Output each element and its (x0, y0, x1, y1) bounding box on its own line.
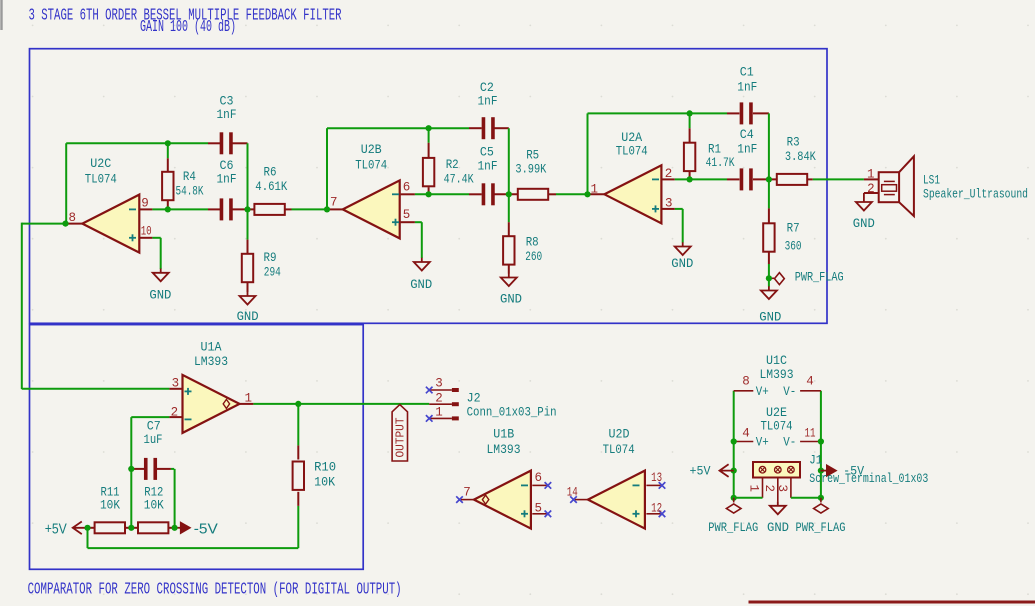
svg-text:TL074: TL074 (616, 143, 648, 158)
svg-text:R3: R3 (787, 135, 800, 150)
svg-text:3: 3 (172, 376, 180, 390)
svg-text:+5V: +5V (690, 463, 711, 478)
svg-text:J2: J2 (467, 391, 481, 406)
svg-text:14: 14 (567, 486, 578, 500)
svg-text:GND: GND (237, 309, 259, 324)
svg-text:260: 260 (525, 249, 542, 264)
svg-text:U1B: U1B (493, 427, 514, 442)
svg-text:10K: 10K (144, 498, 164, 513)
svg-text:13: 13 (651, 471, 662, 485)
svg-text:PWR_FLAG: PWR_FLAG (796, 520, 846, 535)
svg-text:41.7K: 41.7K (706, 155, 735, 170)
svg-text:R7: R7 (787, 221, 800, 236)
svg-text:10K: 10K (100, 498, 120, 513)
svg-text:3: 3 (665, 197, 673, 211)
svg-text:GND: GND (500, 292, 522, 307)
svg-text:COMPARATOR FOR ZERO CROSSING D: COMPARATOR FOR ZERO CROSSING DETECTON (F… (28, 580, 402, 599)
svg-text:LM393: LM393 (487, 442, 521, 457)
svg-text:TL074: TL074 (761, 418, 793, 433)
svg-text:GND: GND (767, 520, 789, 535)
svg-text:R2: R2 (446, 157, 459, 172)
svg-text:R8: R8 (526, 234, 539, 249)
svg-text:1: 1 (590, 182, 598, 196)
svg-text:R6: R6 (264, 165, 277, 180)
svg-text:GAIN 100 (40 dB): GAIN 100 (40 dB) (140, 17, 236, 36)
svg-text:3: 3 (435, 377, 443, 391)
svg-text:4: 4 (806, 375, 814, 389)
svg-text:2: 2 (762, 485, 776, 493)
svg-text:R10: R10 (314, 459, 336, 474)
svg-text:3.84K: 3.84K (785, 149, 816, 164)
svg-text:GND: GND (853, 216, 875, 231)
svg-text:LM393: LM393 (760, 367, 794, 382)
svg-text:PWR_FLAG: PWR_FLAG (795, 270, 844, 285)
svg-text:V-: V- (783, 435, 796, 450)
svg-text:7: 7 (330, 195, 338, 209)
svg-text:LM393: LM393 (194, 354, 228, 369)
svg-text:1nF: 1nF (478, 158, 498, 173)
svg-text:1: 1 (435, 406, 443, 420)
svg-text:U2C: U2C (90, 156, 111, 171)
svg-text:8: 8 (742, 375, 750, 389)
svg-text:V-: V- (783, 384, 796, 399)
svg-text:294: 294 (264, 264, 281, 279)
svg-text:U2B: U2B (361, 142, 382, 157)
svg-text:V+: V+ (756, 435, 769, 450)
svg-text:TL074: TL074 (603, 442, 635, 457)
svg-text:+5V: +5V (45, 521, 67, 538)
svg-text:GND: GND (149, 287, 171, 302)
svg-text:47.4K: 47.4K (444, 171, 474, 186)
svg-text:PWR_FLAG: PWR_FLAG (708, 520, 758, 535)
svg-text:1: 1 (867, 167, 875, 181)
svg-text:2: 2 (435, 391, 443, 405)
svg-text:1uF: 1uF (144, 432, 163, 447)
svg-text:LS1: LS1 (923, 173, 940, 188)
svg-text:V+: V+ (756, 384, 769, 399)
svg-text:1nF: 1nF (217, 171, 237, 186)
svg-text:C5: C5 (480, 144, 494, 159)
svg-text:GND: GND (759, 310, 781, 325)
svg-text:11: 11 (805, 427, 816, 441)
svg-text:TL074: TL074 (85, 172, 117, 187)
svg-text:U1A: U1A (201, 340, 222, 355)
svg-text:3: 3 (775, 485, 789, 493)
svg-text:12: 12 (651, 501, 662, 515)
svg-text:2: 2 (867, 182, 875, 196)
svg-text:8: 8 (68, 211, 76, 225)
svg-text:1nF: 1nF (217, 107, 237, 122)
svg-text:2: 2 (171, 406, 179, 420)
svg-text:1nF: 1nF (737, 79, 757, 94)
svg-text:Conn_01x03_Pin: Conn_01x03_Pin (467, 405, 557, 420)
svg-text:360: 360 (785, 238, 802, 253)
svg-text:5: 5 (403, 208, 411, 222)
svg-text:Speaker_Ultrasound: Speaker_Ultrasound (923, 187, 1028, 202)
svg-text:3.99K: 3.99K (515, 161, 546, 176)
svg-text:9: 9 (141, 196, 149, 210)
svg-text:GND: GND (410, 277, 432, 292)
svg-text:54.8K: 54.8K (176, 183, 204, 198)
svg-text:TL074: TL074 (355, 158, 387, 173)
svg-text:-5V: -5V (843, 463, 864, 478)
svg-text:U2D: U2D (609, 427, 630, 442)
svg-text:6: 6 (403, 180, 411, 194)
svg-text:GND: GND (671, 256, 693, 271)
svg-text:1nF: 1nF (478, 94, 498, 109)
svg-text:R4: R4 (183, 169, 196, 184)
svg-text:6: 6 (534, 471, 542, 485)
svg-text:4.61K: 4.61K (255, 179, 287, 194)
svg-text:10: 10 (141, 225, 152, 239)
svg-text:C1: C1 (740, 65, 754, 80)
svg-text:7: 7 (463, 486, 471, 500)
svg-text:R9: R9 (264, 250, 277, 265)
svg-text:C4: C4 (740, 127, 754, 142)
svg-text:J1: J1 (809, 453, 822, 468)
svg-text:1: 1 (244, 391, 252, 405)
svg-text:4: 4 (742, 427, 750, 441)
svg-text:5: 5 (534, 501, 542, 515)
svg-text:2: 2 (665, 167, 673, 181)
svg-text:OUTPUT: OUTPUT (395, 417, 408, 457)
svg-text:-5V: -5V (194, 521, 218, 538)
svg-text:1: 1 (747, 485, 761, 493)
svg-text:10K: 10K (314, 474, 335, 489)
svg-text:1nF: 1nF (737, 142, 757, 157)
svg-text:Screw_Terminal_01x03: Screw_Terminal_01x03 (809, 471, 928, 486)
